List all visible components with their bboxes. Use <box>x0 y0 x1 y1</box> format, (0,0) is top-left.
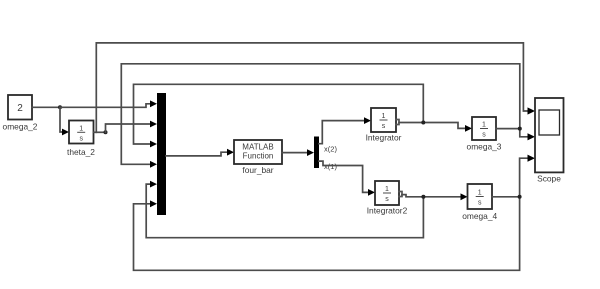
scope screen <box>539 110 560 135</box>
integrator theta_2 <box>69 121 94 144</box>
demux <box>314 137 319 169</box>
svg-text:omega_4: omega_4 <box>462 211 497 221</box>
svg-text:s: s <box>478 200 482 207</box>
svg-text:s: s <box>482 132 486 139</box>
integrator omega_4 <box>468 184 493 209</box>
port tab Integrator2 out <box>399 192 402 197</box>
svg-text:1: 1 <box>79 126 83 133</box>
integrator omega_3 <box>472 117 496 140</box>
arrow into scope input 1 <box>528 107 536 114</box>
svg-text:s: s <box>382 123 386 130</box>
wire junction to mux input 1 <box>60 104 151 108</box>
node junction integrator out <box>421 121 425 125</box>
svg-text:theta_2: theta_2 <box>67 147 95 157</box>
arrow into omega_4 <box>461 193 468 200</box>
arrow into demux <box>307 149 314 156</box>
node junction constant out <box>58 105 62 109</box>
node junction omega_3 out <box>518 127 522 131</box>
svg-text:omega_2: omega_2 <box>3 122 38 132</box>
arrow into Integrator2 <box>368 189 375 196</box>
wire constant to junction <box>32 106 60 108</box>
wire dot up to mux input 2 <box>106 124 152 132</box>
svg-text:1: 1 <box>382 113 386 120</box>
arrow into mux input 3 <box>150 141 157 148</box>
svg-text:1: 1 <box>482 122 486 129</box>
integrator Integrator2 <box>375 181 399 205</box>
wire feedback integrator2-out inner bottom to mux input 5 <box>146 184 423 238</box>
arrow into mux input 2 <box>150 121 157 128</box>
wire junction down to theta_2 input <box>60 107 63 132</box>
arrow into mux input 1 <box>150 100 157 107</box>
svg-text:Scope: Scope <box>537 174 561 184</box>
svg-text:s: s <box>385 196 389 203</box>
wire demux x(1) to Integrator2 <box>319 161 369 192</box>
scope block <box>535 98 564 172</box>
wire MATLAB Fcn output to demux <box>282 152 308 154</box>
arrow into mux input 6 <box>150 200 157 207</box>
arrow into omega_3 <box>465 125 472 132</box>
svg-text:x(1): x(1) <box>324 162 337 171</box>
wire Integrator out to omega_3 <box>399 123 466 129</box>
svg-text:1: 1 <box>478 190 482 197</box>
svg-text:s: s <box>79 136 83 143</box>
svg-text:four_bar: four_bar <box>242 165 273 175</box>
mux <box>157 93 166 215</box>
arrow into MATLAB Fcn <box>227 149 234 156</box>
wire mux output to MATLAB Fcn <box>166 152 228 156</box>
arrow into scope input 3 <box>528 155 536 162</box>
port tab Integrator out <box>396 120 399 125</box>
wire feedback omega_4-out outer bottom to mux input 6 <box>134 197 520 270</box>
node junction integrator2 out <box>421 195 425 199</box>
svg-text:MATLAB: MATLAB <box>242 143 273 152</box>
arrow into Integrator <box>364 117 371 124</box>
integrator Integrator <box>371 108 396 132</box>
arrow into mux input 5 <box>150 181 157 188</box>
wire theta_2 output to dot <box>94 131 106 133</box>
svg-text:Integrator2: Integrator2 <box>367 206 408 216</box>
svg-text:x(2): x(2) <box>324 145 337 154</box>
wire omega_3 out to scope input 2 <box>496 129 529 137</box>
node junction theta_2 out <box>104 130 108 134</box>
svg-text:Integrator: Integrator <box>366 133 402 143</box>
wire feedback theta_2 to scope top line <box>96 43 529 132</box>
arrow into scope input 2 <box>528 133 536 140</box>
MATLAB Fcn four_bar <box>234 140 282 164</box>
arrow into theta_2 <box>62 129 69 136</box>
wire feedback integrator-out line3 to mux input 3 <box>134 84 424 144</box>
wire demux x(2) to Integrator <box>319 121 365 144</box>
wire omega_4 out to scope input 3 <box>492 158 529 197</box>
svg-text:1: 1 <box>385 186 389 193</box>
wire Integrator2 out to omega_4 <box>402 195 462 197</box>
wire feedback omega_3 line2 to mux input 4 <box>121 64 520 165</box>
svg-text:omega_3: omega_3 <box>467 142 502 152</box>
arrow into mux input 4 <box>150 161 157 168</box>
theta_2 1/s glyph <box>79 126 83 143</box>
svg-text:Function: Function <box>243 152 274 161</box>
svg-text:2: 2 <box>17 103 23 114</box>
node junction omega_4 out <box>518 195 522 199</box>
constant omega_2 <box>8 95 32 120</box>
